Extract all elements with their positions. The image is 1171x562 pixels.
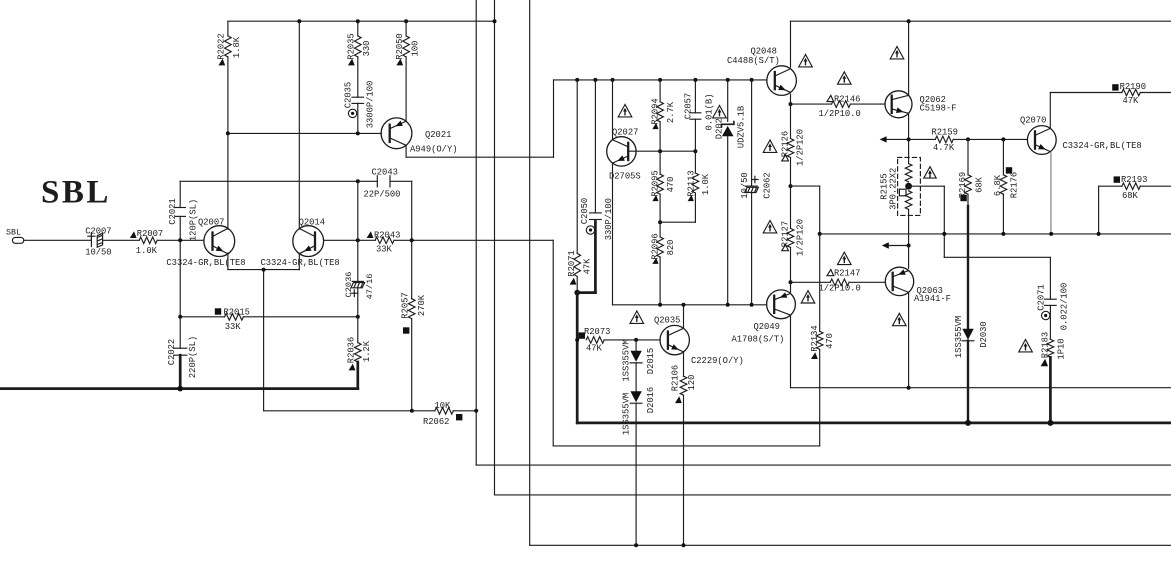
arrow tap upper: [880, 136, 887, 142]
wire R2062 mid: [412, 410, 435, 412]
resistor R2169: [965, 175, 972, 194]
resistor R2183 marker: [1041, 359, 1048, 366]
svg-text:47K: 47K: [1123, 96, 1140, 106]
svg-text:1.2K: 1.2K: [362, 340, 372, 362]
capacitor C2022: [174, 347, 187, 349]
node R2127/R2147: [789, 280, 793, 284]
wire R2050 to Q2021 emitter: [405, 57, 407, 121]
svg-text:D2015: D2015: [646, 348, 656, 374]
svg-text:Q2027: Q2027: [612, 128, 638, 138]
wire Q2027 emitter: [612, 163, 614, 305]
svg-text:R2147: R2147: [834, 268, 860, 278]
svg-text:R2071: R2071: [567, 250, 577, 276]
svg-text:R2193: R2193: [1121, 175, 1147, 185]
capacitor C2021: [175, 207, 185, 209]
node wiper/bus234: [942, 232, 946, 236]
node R2062/long vert: [474, 409, 478, 413]
wire Q2070 base: [1026, 138, 1028, 140]
svg-text:470: 470: [825, 333, 835, 349]
node bold/R2073: [575, 338, 579, 342]
svg-text:C3324-GR,BL(TE8: C3324-GR,BL(TE8: [166, 258, 245, 268]
svg-text:C2071: C2071: [1037, 284, 1047, 310]
svg-text:68K: 68K: [1122, 191, 1139, 201]
wire R2007 to Q2007 base: [157, 239, 204, 241]
wire emitter bus y234: [820, 233, 1171, 235]
svg-text:R2169: R2169: [958, 172, 968, 198]
svg-text:R2050: R2050: [395, 33, 405, 59]
wire C2057 upper: [694, 80, 696, 113]
svg-text:10/50: 10/50: [85, 247, 111, 257]
wire R2035 branch: [357, 21, 359, 36]
resistor R2147 marker: [827, 270, 834, 276]
wire R2169 upper: [967, 139, 969, 174]
wire top supply rail (left segment): [228, 20, 495, 22]
svg-text:1SS355VM: 1SS355VM: [621, 393, 631, 435]
wire long vertical C: [529, 0, 531, 545]
wire R2096 upper: [659, 222, 661, 237]
transistor Q2070: [1027, 126, 1056, 155]
capacitor C2050 ring: [586, 226, 594, 234]
diode D2016: [630, 391, 641, 402]
wire Q2063 emitter down: [908, 293, 910, 388]
svg-text:Q2070: Q2070: [1020, 116, 1046, 126]
svg-text:C2043: C2043: [372, 168, 398, 178]
transistor Q2014: [293, 226, 324, 257]
wire Q2070 collector: [1049, 93, 1051, 129]
node y305/R2096: [658, 303, 662, 307]
resistor R2127 marker: [782, 245, 789, 251]
svg-text:33K: 33K: [376, 245, 393, 255]
resistor R2035 marker: [348, 59, 355, 66]
wire C2036 to R2015 node: [357, 288, 359, 317]
warning near D2023: [713, 106, 727, 118]
svg-text:R2106: R2106: [671, 365, 681, 391]
resistor R2176: [1000, 175, 1007, 194]
resistor R2050: [403, 36, 410, 57]
potentiometer R2155 box: [898, 157, 921, 215]
svg-text:330: 330: [362, 41, 372, 57]
wire C2071 to R2183: [1049, 305, 1051, 339]
svg-text:C5198-F: C5198-F: [920, 104, 957, 114]
resistor R2095: [657, 174, 664, 194]
resistor R2190 square: [1112, 84, 1118, 90]
transistor Q2021: [381, 118, 412, 149]
resistor R2071 marker: [570, 278, 577, 285]
svg-text:R2015: R2015: [224, 308, 250, 318]
wire D2015 to D2016: [635, 363, 637, 391]
bold ground line left: [0, 387, 358, 390]
svg-text:R2113: R2113: [686, 170, 696, 196]
node bus/C2057: [693, 78, 697, 82]
wire R2095 lower: [659, 194, 661, 222]
wire C2050 upper: [594, 80, 596, 213]
warning right of Q2048: [799, 55, 813, 67]
wire feedback drop: [552, 240, 554, 446]
node bus/R2071: [575, 78, 579, 82]
svg-text:Q2035: Q2035: [654, 316, 680, 326]
node Q2063 collector tap: [907, 244, 911, 248]
resistor R2057: [408, 299, 415, 319]
connector SBL: [12, 237, 23, 243]
svg-text:C2036: C2036: [344, 272, 354, 298]
resistor R2146: [832, 101, 851, 108]
wire R2169 to D2030: [967, 194, 969, 206]
warning left of R2126: [763, 140, 777, 152]
wire Q2021 collector line: [406, 156, 553, 158]
resistor R2050 marker: [396, 59, 403, 66]
svg-text:D2705S: D2705S: [609, 171, 641, 181]
wire R2035 to C2035: [357, 57, 359, 97]
transistor Q2062: [885, 91, 912, 118]
node Q2062 emitter/R2159: [907, 137, 911, 141]
wire Q2021 base line: [228, 132, 381, 134]
wire R2146 right: [850, 103, 885, 105]
svg-text:R2134: R2134: [810, 325, 820, 351]
svg-text:47K: 47K: [586, 344, 603, 354]
svg-text:C2229(O/Y): C2229(O/Y): [691, 356, 744, 366]
svg-text:SBL: SBL: [6, 227, 21, 237]
wire R2159 left: [909, 138, 936, 140]
wire C2057 lower: [694, 119, 696, 151]
potentiometer R2155 upper half: [905, 164, 912, 182]
svg-text:1.0K: 1.0K: [701, 173, 711, 195]
resistor R2126: [787, 139, 794, 158]
wire riser to mid bus: [553, 80, 555, 157]
node y305/Q2035 coll: [682, 303, 686, 307]
capacitor C2071: [1045, 298, 1057, 300]
svg-text:Q2014: Q2014: [299, 218, 325, 228]
wire Q2014 collector vertical: [298, 21, 300, 229]
svg-text:R2094: R2094: [651, 98, 661, 124]
wire R2057 lower: [411, 319, 413, 411]
resistor R2183: [1047, 339, 1054, 357]
node R2095/R2096: [658, 220, 662, 224]
node input/C2021: [178, 238, 182, 242]
wire to R2036: [357, 317, 359, 343]
resistor R2043: [375, 237, 394, 244]
node R2134 top bus: [818, 232, 822, 236]
svg-text:R2176: R2176: [1009, 172, 1019, 198]
node R2183/bold bus: [1047, 420, 1053, 426]
resistor R2134: [816, 331, 823, 349]
wire mid bus y80: [554, 79, 768, 81]
node rail/vertical B: [493, 19, 497, 23]
svg-text:R2043: R2043: [374, 230, 400, 240]
warning left of R2183: [1019, 340, 1033, 352]
svg-text:1SS355VM: 1SS355VM: [954, 316, 964, 358]
node bus/C2062: [750, 78, 754, 82]
svg-text:R2035: R2035: [346, 33, 356, 59]
node base wire/C2057: [693, 149, 697, 153]
node R2043/R2057: [410, 238, 414, 242]
svg-text:R2127: R2127: [781, 221, 791, 247]
wire R2094 lower: [659, 122, 661, 151]
wire R2113 upper: [694, 151, 696, 173]
wire Q2049 collector down: [790, 316, 792, 388]
svg-text:R2095: R2095: [651, 170, 661, 196]
warning below Q2063: [893, 313, 907, 325]
wire long vertical B: [494, 0, 496, 495]
svg-text:R2036: R2036: [346, 337, 356, 363]
wire D2023 lower: [727, 136, 729, 304]
node emitter join: [262, 268, 266, 272]
wire R2126 upper: [790, 104, 792, 138]
warning near Q2035: [630, 311, 644, 323]
node base/C2036 line: [356, 238, 360, 242]
resistor R2036: [355, 343, 362, 362]
svg-text:R2022: R2022: [217, 33, 227, 59]
bold bus bottom: [577, 422, 1171, 425]
svg-text:47K: 47K: [582, 258, 592, 275]
node D2030/bold bus: [965, 420, 971, 426]
wire Q2048 emitter: [790, 94, 792, 104]
svg-text:C2035: C2035: [344, 82, 354, 108]
resistor R2106: [680, 376, 687, 395]
svg-text:C4488(S/T): C4488(S/T): [727, 56, 780, 66]
resistor R2190: [1122, 89, 1140, 96]
wire Q2049 emitter up: [790, 282, 792, 292]
svg-text:10K: 10K: [435, 401, 452, 411]
resistor R2015: [225, 314, 244, 321]
wire D2023 upper: [727, 80, 729, 122]
wire output line y388: [791, 387, 1171, 389]
svg-text:R2159: R2159: [932, 127, 958, 137]
wire C2062 upper: [751, 80, 753, 186]
node bus/C2050: [593, 78, 597, 82]
svg-text:UDZV5.1B: UDZV5.1B: [737, 106, 747, 148]
svg-text:A949(O/Y): A949(O/Y): [410, 145, 458, 155]
transistor Q2007: [204, 226, 235, 257]
wire R2057 upper: [411, 240, 413, 298]
svg-text:R2183: R2183: [1041, 332, 1051, 358]
wire wiper lower jog: [944, 256, 1050, 258]
wire R2127 lower: [790, 247, 792, 282]
bold wire R2183 down: [1049, 357, 1052, 423]
node rail/R2035: [356, 19, 360, 23]
svg-text:1.0K: 1.0K: [136, 246, 158, 256]
capacitor C2062 body: [745, 187, 759, 192]
capacitor C2062 bar: [746, 185, 757, 187]
node y305/D2023: [726, 303, 730, 307]
wire to Q2063: [908, 246, 910, 269]
node R2015/C2022: [178, 315, 182, 319]
resistor R2057 square: [403, 327, 409, 333]
capacitor C2007 body: [97, 233, 102, 247]
resistor R2015 square: [215, 308, 221, 314]
node C2036/R2015: [356, 315, 360, 319]
svg-text:C2057: C2057: [684, 93, 694, 119]
resistor R2062: [435, 408, 453, 415]
svg-text:3300P/100: 3300P/100: [365, 81, 375, 129]
wire R2095 upper: [659, 151, 661, 174]
wire R2015 right: [243, 316, 357, 318]
resistor R2043 marker: [367, 231, 374, 238]
warning above Q2062: [890, 47, 904, 59]
wire pot top: [908, 139, 910, 163]
svg-text:33K: 33K: [225, 322, 242, 332]
svg-text:C2062: C2062: [762, 172, 772, 198]
node base/R2094: [658, 149, 662, 153]
svg-text:3P0.22X2: 3P0.22X2: [889, 168, 899, 210]
resistor R2106 marker: [675, 396, 682, 403]
svg-text:1/2P10.0: 1/2P10.0: [819, 109, 861, 119]
svg-text:R2126: R2126: [781, 131, 791, 157]
wire R2050 branch: [405, 21, 407, 36]
svg-text:D2016: D2016: [646, 387, 656, 413]
svg-text:R2007: R2007: [137, 229, 163, 239]
resistor R2007: [139, 237, 157, 244]
wire R2071 lower: [576, 276, 578, 292]
svg-text:0.01(B): 0.01(B): [704, 94, 714, 131]
svg-text:Q2021: Q2021: [425, 130, 451, 140]
node bus/D2023: [726, 78, 730, 82]
wire R2106 down: [683, 395, 685, 545]
svg-text:Q2007: Q2007: [198, 218, 224, 228]
wire mid emitter bus y305: [613, 304, 767, 306]
wire R2176 lower: [1002, 194, 1004, 234]
resistor R2094 marker: [652, 123, 658, 129]
wire C2035 to node: [357, 103, 359, 133]
node Q2063/output line: [907, 386, 911, 390]
wire C2021 line to C2022: [179, 240, 181, 348]
svg-text:C2050: C2050: [580, 198, 590, 224]
resistor R2193 square: [1114, 176, 1120, 182]
svg-text:4.7K: 4.7K: [933, 143, 955, 153]
resistor R2062 square: [456, 414, 462, 420]
wire long vertical A: [475, 0, 477, 465]
capacitor C2050: [590, 212, 602, 214]
wire Q2035 emitter: [683, 352, 685, 376]
svg-text:270K: 270K: [417, 294, 427, 316]
svg-text:820: 820: [666, 240, 676, 256]
wire R2147 left: [791, 281, 831, 283]
wire emitter tail: [263, 270, 265, 411]
wire C2062 lower: [751, 193, 753, 305]
wire Q2027 base: [628, 150, 695, 152]
node rail/Q2014 collector: [297, 19, 301, 23]
svg-text:6.8K: 6.8K: [993, 174, 1003, 196]
wire Q2062 emitter: [908, 113, 910, 139]
svg-text:1/2P120: 1/2P120: [795, 219, 805, 256]
svg-text:C2022: C2022: [167, 339, 177, 365]
wire Q2014 base: [324, 239, 376, 241]
resistor R2113 marker: [688, 195, 694, 201]
svg-text:R2190: R2190: [1120, 82, 1146, 92]
resistor R2113: [692, 173, 699, 193]
svg-text:R2062: R2062: [423, 417, 449, 427]
node y305/C2062: [750, 303, 754, 307]
wire Q2027 collector: [612, 80, 614, 140]
capacitor C2036 body: [351, 283, 365, 288]
svg-text:R2057: R2057: [400, 292, 410, 318]
svg-text:1/2P120: 1/2P120: [795, 129, 805, 166]
resistor R2193: [1122, 183, 1140, 190]
wire R2159 right: [953, 138, 1027, 140]
svg-text:SBL: SBL: [41, 175, 111, 211]
wire C2007 to R2007: [103, 239, 139, 241]
svg-text:470: 470: [666, 177, 676, 193]
wire R2193 corner: [1098, 186, 1100, 234]
wire R2096 lower: [659, 257, 661, 305]
wire Q2035 collector: [683, 305, 685, 329]
potentiometer R2155 square: [899, 189, 906, 196]
capacitor C2035: [352, 96, 364, 98]
node R2159/R2176: [1001, 137, 1005, 141]
node R2159/R2169: [966, 137, 970, 141]
potentiometer R2155 wiper node: [905, 183, 912, 190]
wire D2016 down: [635, 403, 637, 545]
node line181/C2036: [356, 179, 360, 183]
arrow tap lower: [882, 242, 889, 248]
warning above R2146: [838, 72, 852, 84]
svg-text:100: 100: [410, 41, 420, 57]
resistor R2147: [830, 279, 849, 286]
node D2016/bottom line: [634, 543, 638, 547]
wire Q2021 collector down: [405, 145, 407, 157]
wire R2022 branch vertical: [227, 21, 229, 36]
resistor R2126 marker: [782, 155, 789, 161]
node R2193/bus234: [1097, 232, 1101, 236]
node rail/R2050: [404, 19, 408, 23]
wire R2094 upper: [659, 80, 661, 102]
svg-text:C3324-GR,BL(TE8: C3324-GR,BL(TE8: [261, 258, 340, 268]
diode D2023 zener: [722, 126, 734, 136]
wire Q2014 emitter: [298, 253, 300, 269]
wire Q2070 emitter gray: [1050, 153, 1052, 233]
resistor R2094: [657, 102, 664, 122]
wire R2147 right: [849, 281, 885, 283]
capacitor C2071 ring: [1042, 311, 1050, 319]
node bus/R2094: [658, 78, 662, 82]
svg-text:68K: 68K: [974, 176, 984, 193]
svg-text:C2021: C2021: [168, 198, 178, 224]
capacitor C2057: [690, 112, 701, 114]
capacitor C2035 ring: [348, 109, 356, 117]
node bus/Q2027 collector: [611, 78, 615, 82]
svg-text:1SS355VM: 1SS355VM: [621, 339, 631, 381]
resistor R2073: [586, 337, 604, 344]
resistor R2159: [935, 136, 953, 143]
wire C2043 right: [390, 180, 412, 182]
transistor Q2035: [660, 325, 689, 354]
bold wire C2050 down: [594, 222, 597, 293]
warning right of R2155: [924, 167, 936, 178]
wire R2155 wiper right: [909, 185, 945, 187]
wire C2021 top line: [179, 216, 181, 240]
transistor Q2027: [607, 137, 636, 166]
bold wire D2030 down: [967, 341, 969, 423]
node Q2048 emitter: [789, 102, 793, 106]
wire D2015 top: [635, 340, 637, 351]
resistor R2095 marker: [652, 195, 658, 201]
resistor R2127: [787, 228, 794, 247]
wire R2062 right: [453, 410, 476, 412]
svg-text:1.8K: 1.8K: [232, 36, 242, 58]
warning below R2147 left: [801, 291, 815, 303]
svg-text:1/2P10.0: 1/2P10.0: [819, 283, 861, 293]
wire input to C2007: [24, 239, 92, 241]
wire R2193 right: [1140, 185, 1171, 187]
node R2057/R2062 line: [410, 409, 414, 413]
wire R2022 to node: [227, 57, 229, 133]
wire R2146 left: [791, 103, 832, 105]
resistor R2073 square: [579, 332, 585, 338]
resistor R2071: [574, 253, 581, 276]
svg-text:C2007: C2007: [85, 226, 111, 236]
svg-text:120P(SL): 120P(SL): [188, 199, 198, 241]
resistor R2036 marker: [349, 364, 356, 371]
resistor R2169 square: [960, 195, 966, 201]
